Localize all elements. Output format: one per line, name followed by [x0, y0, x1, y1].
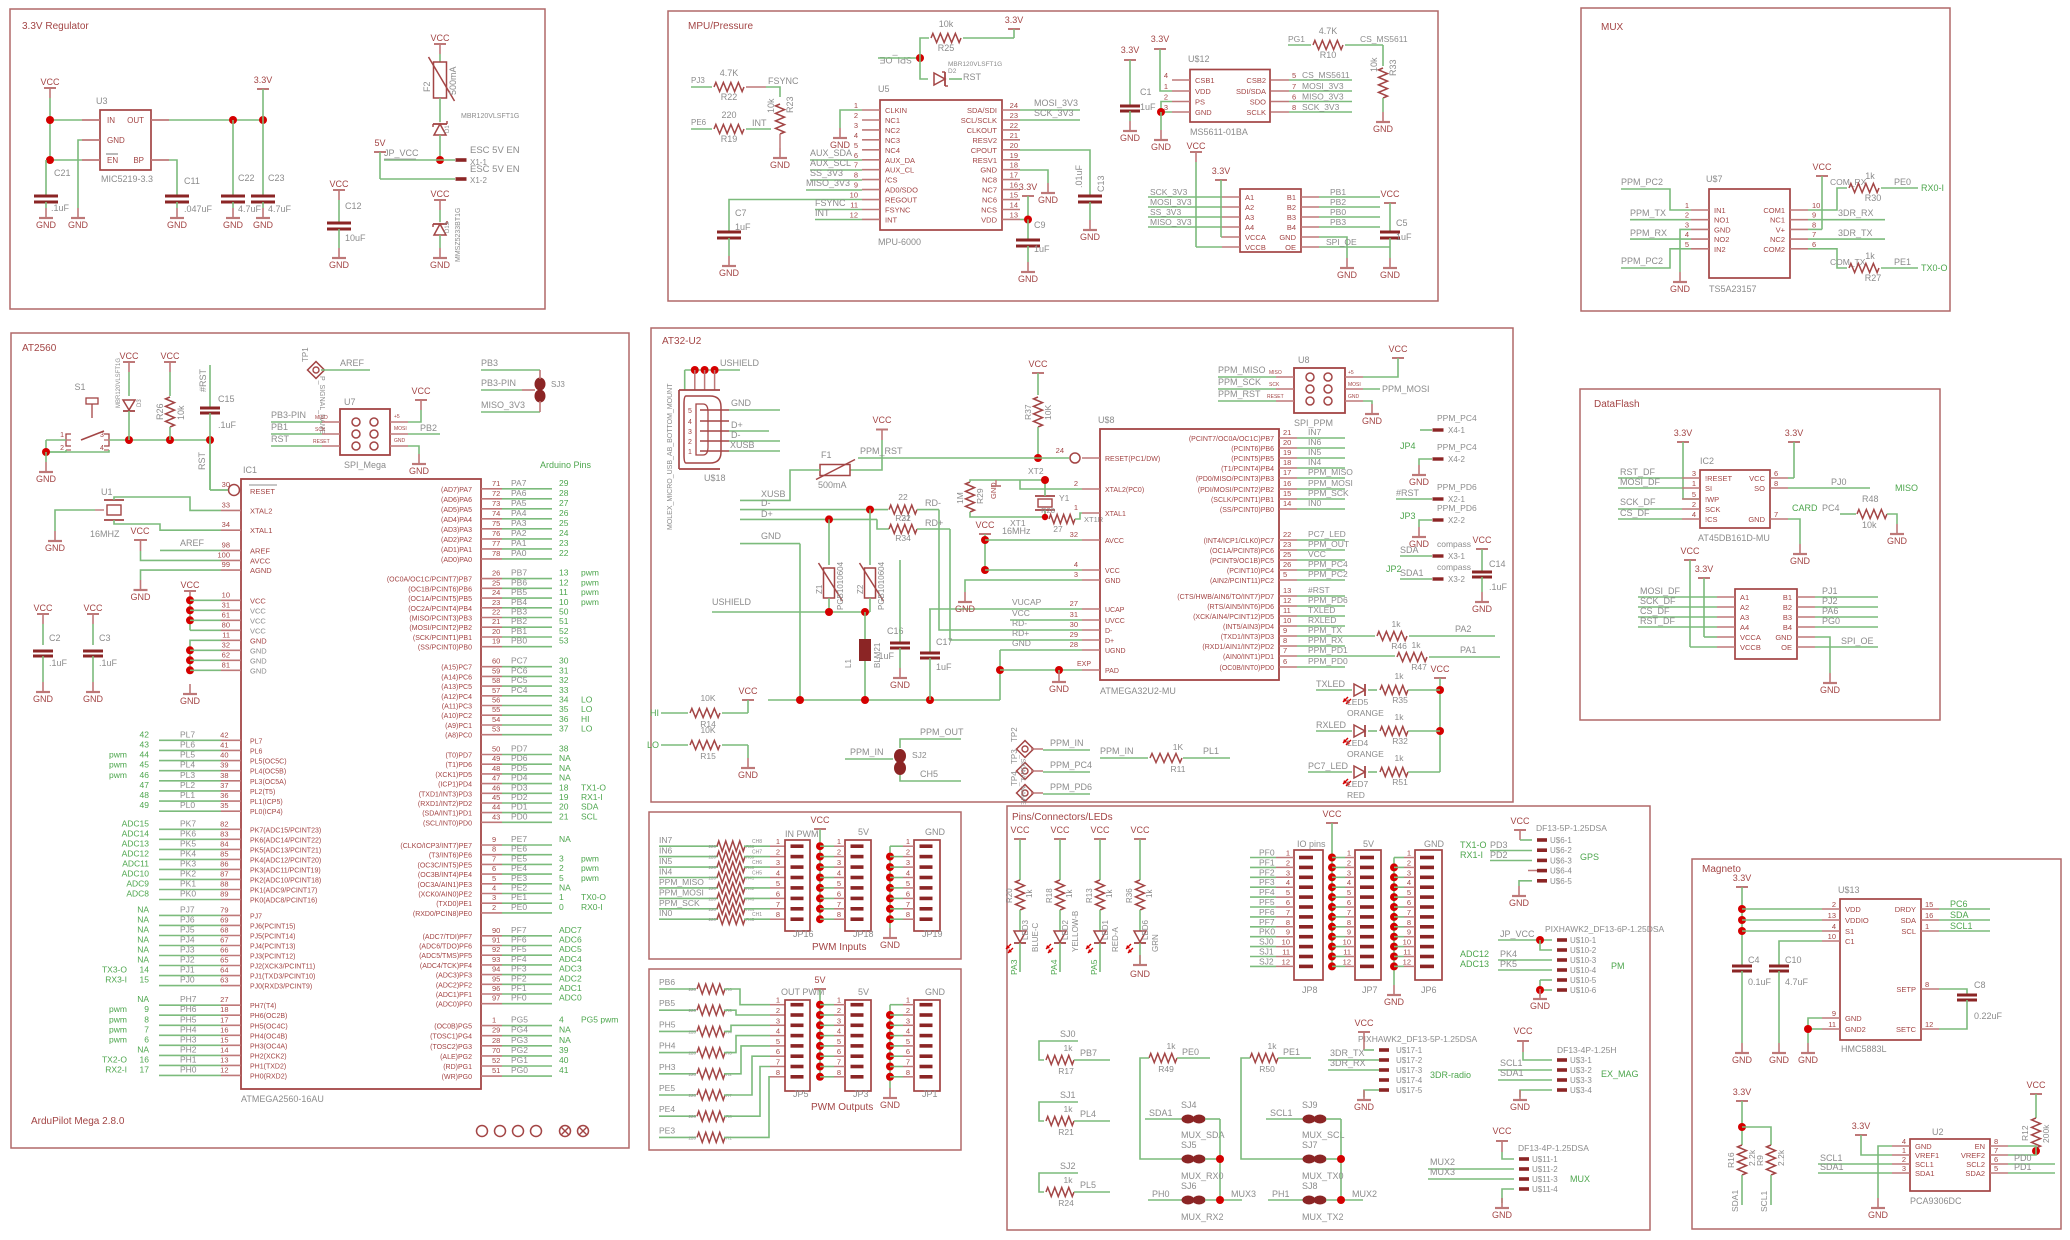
svg-text:ATMEGA2560-16AU: ATMEGA2560-16AU [241, 1094, 324, 1104]
connector U$6 GPS [1460, 816, 1607, 886]
svg-text:MMSZ5233BT1G: MMSZ5233BT1G [455, 208, 462, 262]
svg-text:R36: R36 [1125, 888, 1134, 903]
header JP7 5V [1332, 839, 1381, 995]
svg-text:PH6(OC2B): PH6(OC2B) [250, 1013, 287, 1020]
svg-text:67: 67 [220, 936, 228, 945]
svg-text:DRDY: DRDY [1895, 905, 1916, 914]
svg-text:PL7: PL7 [250, 738, 263, 745]
svg-text:PE1: PE1 [511, 892, 527, 902]
mount holes [477, 1126, 589, 1137]
svg-text:42: 42 [140, 729, 150, 739]
svg-text:GND: GND [1362, 416, 1383, 426]
svg-text:PPM_SCK: PPM_SCK [659, 898, 700, 908]
header JP19 [886, 827, 946, 939]
header U8 SPI_PPM [1267, 355, 1363, 428]
svg-text:MBR120VLSFT1G: MBR120VLSFT1G [116, 358, 122, 408]
svg-text:1: 1 [906, 837, 910, 846]
svg-text:4.7K: 4.7K [720, 68, 739, 78]
label PD0 [2008, 1153, 2055, 1164]
svg-text:PK0: PK0 [180, 889, 196, 899]
svg-text:(ADC0)PF0: (ADC0)PF0 [436, 1002, 472, 1009]
svg-text:6: 6 [837, 889, 841, 898]
svg-text:36: 36 [559, 714, 569, 724]
svg-text:3: 3 [906, 858, 910, 867]
svg-text:4: 4 [1164, 71, 1168, 80]
svg-text:3DR_TX: 3DR_TX [1330, 1048, 1365, 1058]
svg-text:2: 2 [1832, 900, 1836, 909]
svg-text:PD1: PD1 [2014, 1162, 2032, 1172]
svg-text:PPM_SCK: PPM_SCK [1218, 377, 1261, 387]
svg-text:(ADC1)PF1: (ADC1)PF1 [436, 992, 472, 999]
svg-text:4: 4 [1685, 230, 1689, 239]
svg-text:13: 13 [1828, 911, 1836, 920]
svg-text:GND: GND [1845, 1014, 1862, 1023]
svg-text:13: 13 [1283, 586, 1291, 595]
svg-text:S1: S1 [1845, 927, 1854, 936]
svg-text:ADC15: ADC15 [122, 818, 150, 828]
svg-text:4: 4 [776, 869, 780, 878]
header JP3 [820, 987, 871, 1099]
supply 3.3V VDD [1019, 182, 1038, 220]
svg-text:SETP: SETP [1896, 985, 1916, 994]
svg-text:PF7: PF7 [511, 925, 527, 935]
svg-text:PF4: PF4 [511, 954, 527, 964]
svg-text:GND: GND [761, 531, 782, 541]
svg-text:XUSB: XUSB [730, 440, 755, 450]
svg-text:8: 8 [1774, 479, 1778, 488]
svg-text:IC2: IC2 [1700, 456, 1714, 466]
IC U$13 pins [1822, 899, 1990, 1034]
svg-text:VCC: VCC [1090, 825, 1110, 835]
svg-text:2: 2 [492, 903, 496, 912]
IC U5 right pins [961, 101, 1020, 224]
svg-text:MISO_3V3: MISO_3V3 [1302, 92, 1344, 102]
svg-text:NA: NA [137, 914, 149, 924]
frame AT2560 box [11, 333, 629, 1148]
label SJ_SIGNAL_NAME [1019, 754, 1026, 806]
wire OE SPI_OE [1319, 237, 1390, 247]
svg-text:B1: B1 [1783, 593, 1792, 602]
svg-text:PL6: PL6 [250, 748, 263, 755]
svg-text:SDA1: SDA1 [1915, 1169, 1935, 1178]
wire OUT to 3.3V rail [169, 116, 267, 124]
svg-text:17: 17 [140, 1064, 150, 1074]
svg-text:2: 2 [688, 439, 692, 446]
svg-text:SJ2: SJ2 [1060, 1161, 1076, 1171]
svg-text:SJ1: SJ1 [1259, 947, 1274, 957]
svg-text:SDA2: SDA2 [1965, 1169, 1985, 1178]
svg-text:GND: GND [1337, 270, 1358, 280]
svg-text:PG3: PG3 [511, 1035, 528, 1045]
svg-text:SJ2: SJ2 [1259, 956, 1274, 966]
svg-text:U$10-4: U$10-4 [1570, 966, 1597, 975]
svg-text:5: 5 [906, 1037, 910, 1046]
svg-text:2.2k: 2.2k [1776, 1149, 1786, 1166]
svg-text:220: 220 [688, 1072, 696, 1077]
label PPM_MOSI hdr [1363, 384, 1430, 394]
svg-text:MS5611-01BA: MS5611-01BA [1190, 127, 1248, 137]
IC U$8 ATMEGA32U2 outline [1098, 415, 1279, 696]
svg-text:220: 220 [721, 110, 736, 120]
ground C1 [1120, 121, 1141, 143]
svg-text:(A14)PC6: (A14)PC6 [441, 674, 472, 681]
wire USB D- pin [729, 430, 780, 441]
svg-text:220: 220 [708, 917, 716, 922]
svg-text:PGB1010604: PGB1010604 [836, 561, 845, 610]
svg-text:PG5 pwm: PG5 pwm [581, 1015, 618, 1025]
svg-text:RST_DF: RST_DF [1640, 616, 1676, 626]
svg-text:GND: GND [1509, 898, 1530, 908]
label JP_VCC wire [384, 148, 455, 160]
svg-text:1: 1 [1074, 503, 1078, 512]
ground shifter DF [1820, 673, 1841, 695]
svg-text:TX1-O: TX1-O [1460, 840, 1487, 850]
svg-text:10k: 10k [1862, 520, 1877, 530]
svg-text:PJ2(XCK3/PCINT11): PJ2(XCK3/PCINT11) [250, 964, 315, 971]
svg-text:RXLED: RXLED [1316, 720, 1347, 730]
svg-text:5: 5 [854, 141, 858, 150]
wire IC2 gnd [1788, 519, 1800, 544]
svg-text:7: 7 [1812, 230, 1816, 239]
svg-text:PK0: PK0 [1259, 927, 1275, 937]
svg-text:(OC0B)PG5: (OC0B)PG5 [434, 1024, 472, 1031]
svg-text:1k: 1k [1865, 171, 1875, 181]
svg-text:PH7(T4): PH7(T4) [250, 1003, 276, 1010]
svg-text:PE0: PE0 [1894, 177, 1911, 187]
svg-text:2: 2 [906, 848, 910, 857]
svg-text:7: 7 [144, 1024, 149, 1034]
ground U$10 [1530, 989, 1551, 1011]
svg-text:VCC: VCC [810, 815, 830, 825]
svg-text:(OC3C/INT5)PE5: (OC3C/INT5)PE5 [418, 862, 473, 869]
svg-text:220: 220 [708, 886, 716, 891]
svg-text:ADC12: ADC12 [1460, 949, 1489, 959]
ground R23 [770, 148, 791, 170]
wire AREF pin98 [160, 538, 221, 550]
pin X2-1 [1396, 482, 1477, 504]
svg-text:VCC: VCC [83, 603, 103, 613]
wire EXP pad [1000, 661, 1091, 674]
svg-text:64: 64 [220, 966, 228, 975]
ground C22 [223, 208, 244, 230]
capacitor C3 group [83, 603, 118, 682]
jumper SJ2 [845, 727, 964, 781]
svg-text:SJ8: SJ8 [1302, 1181, 1318, 1191]
svg-text:U$18: U$18 [704, 473, 726, 483]
svg-text:U$10-6: U$10-6 [1570, 986, 1597, 995]
svg-text:PK4(ADC12/PCINT20): PK4(ADC12/PCINT20) [250, 857, 321, 864]
resistor R31 22 [889, 492, 1082, 630]
svg-text:.047uF: .047uF [184, 204, 213, 214]
capacitor C12 [327, 201, 366, 248]
svg-text:AT2560: AT2560 [22, 343, 57, 354]
svg-text:(TXD1/INT3)PD3: (TXD1/INT3)PD3 [419, 791, 472, 798]
svg-text:5: 5 [1994, 1164, 1998, 1173]
svg-text:PK0(ADC8/PCINT16): PK0(ADC8/PCINT16) [250, 898, 317, 905]
svg-text:ORANGE: ORANGE [1347, 749, 1384, 759]
svg-text:15: 15 [1283, 489, 1291, 498]
resistor R48 10k [1792, 494, 1897, 530]
svg-text:50: 50 [559, 607, 569, 617]
svg-text:GND: GND [1130, 969, 1151, 979]
svg-text:SJ3: SJ3 [551, 380, 565, 389]
svg-text:5: 5 [1685, 240, 1689, 249]
svg-text:SDA1: SDA1 [1500, 1068, 1524, 1078]
svg-text:VCC: VCC [1105, 568, 1120, 575]
supply VCC regulator input [40, 77, 60, 160]
svg-text:10k: 10k [176, 405, 186, 420]
svg-text:RESET: RESET [250, 487, 275, 496]
connector U$18 USB shield [685, 358, 760, 390]
svg-text:1uF: 1uF [936, 662, 952, 672]
svg-text:PE0: PE0 [511, 902, 527, 912]
svg-text:PA5: PA5 [511, 498, 527, 508]
svg-text:R26: R26 [155, 403, 165, 420]
svg-text:(OC1A/PCINT8)PC6: (OC1A/PCINT8)PC6 [1210, 548, 1274, 555]
svg-text:U$17-4: U$17-4 [1396, 1076, 1423, 1085]
svg-text:PA1: PA1 [1460, 645, 1476, 655]
connector U$18 USB body [667, 383, 729, 530]
svg-text:2: 2 [837, 1006, 841, 1015]
svg-text:TX0-O: TX0-O [581, 892, 606, 902]
svg-text:ADC4: ADC4 [559, 954, 582, 964]
svg-text:PE6: PE6 [691, 118, 707, 127]
svg-text:6: 6 [854, 151, 858, 160]
svg-text:D+: D+ [1105, 638, 1114, 645]
svg-text:MUX3: MUX3 [1231, 1189, 1256, 1199]
svg-text:IN0: IN0 [659, 908, 673, 918]
svg-text:ADC2: ADC2 [559, 973, 582, 983]
svg-text:(RXD0/PCIN8)PE0: (RXD0/PCIN8)PE0 [413, 911, 472, 918]
svg-text:BLUE-C: BLUE-C [1031, 922, 1040, 952]
svg-text:100: 100 [217, 550, 230, 559]
svg-text:PJ3: PJ3 [691, 76, 705, 85]
svg-text:U$8: U$8 [1098, 415, 1115, 425]
svg-text:9: 9 [854, 181, 858, 190]
svg-text:PB2: PB2 [420, 423, 437, 433]
pin X2-2 [1419, 503, 1477, 527]
svg-text:XT2: XT2 [1028, 466, 1044, 476]
label PPM_PC2 top [1621, 177, 1691, 210]
jumper net SJ1 R21 [1039, 1090, 1110, 1137]
svg-text:GND: GND [45, 543, 66, 553]
svg-text:ADC11: ADC11 [122, 858, 149, 868]
supply 3.3V IC2 right [1785, 428, 1804, 478]
svg-text:7: 7 [906, 900, 910, 909]
ground U3 gnd pin [68, 208, 89, 230]
supply VCC R12 [2026, 1080, 2046, 1118]
svg-text:72: 72 [492, 489, 500, 498]
svg-text:R16: R16 [1726, 1152, 1736, 1168]
capacitor C22 [221, 120, 262, 214]
svg-text:8: 8 [144, 1014, 149, 1024]
svg-text:6: 6 [1292, 93, 1296, 102]
svg-text:NA: NA [559, 883, 571, 893]
label 3DR_TX [1808, 228, 1885, 239]
svg-text:6: 6 [776, 1047, 780, 1056]
svg-text:GND: GND [770, 160, 791, 170]
label PD1 [2008, 1162, 2055, 1173]
svg-text:PK2: PK2 [180, 868, 196, 878]
switch S1 [60, 382, 109, 452]
svg-text:4: 4 [688, 419, 692, 426]
svg-text:PPM_PD6: PPM_PD6 [1308, 595, 1348, 605]
svg-text:4: 4 [1074, 560, 1078, 569]
svg-text:12: 12 [559, 577, 569, 587]
svg-text:500mA: 500mA [448, 66, 458, 95]
svg-text:PPM_IN: PPM_IN [850, 747, 884, 757]
svg-text:SJ0: SJ0 [1060, 1029, 1076, 1039]
label RST net [949, 72, 982, 82]
svg-text:65: 65 [220, 956, 228, 965]
svg-text:PH0: PH0 [180, 1064, 197, 1074]
wire V+ pin [1808, 228, 1822, 230]
svg-text:IN7: IN7 [659, 835, 673, 845]
svg-text:CS_DF: CS_DF [1620, 508, 1650, 518]
svg-text:32: 32 [1070, 530, 1078, 539]
svg-text:ESC 5V EN: ESC 5V EN [470, 145, 520, 156]
frame AT32-U2 box [651, 328, 1513, 802]
svg-text:NA: NA [137, 1044, 149, 1054]
supply 3.3V IC2 left [1674, 428, 1700, 499]
svg-text:VCC: VCC [329, 179, 349, 189]
svg-text:8: 8 [854, 171, 858, 180]
IC level shifter DF [1735, 589, 1797, 659]
svg-text:VDD: VDD [1195, 87, 1211, 96]
svg-text:(AD3)PA3: (AD3)PA3 [441, 527, 472, 534]
svg-text:5: 5 [559, 873, 564, 883]
svg-text:RST: RST [963, 72, 982, 82]
svg-text:6: 6 [1347, 898, 1351, 907]
svg-text:7: 7 [854, 161, 858, 170]
IC U$7 TS5A23157 [1706, 174, 1790, 294]
svg-text:R48: R48 [1862, 494, 1879, 504]
svg-text:C3: C3 [99, 633, 111, 643]
svg-text:4: 4 [1347, 878, 1351, 887]
svg-text:GND: GND [719, 268, 740, 278]
svg-text:4: 4 [559, 1015, 564, 1025]
svg-text:(MISO/PCINT3)PB3: (MISO/PCINT3)PB3 [409, 616, 472, 623]
svg-text:PB5: PB5 [511, 587, 527, 597]
svg-text:(A13)PC5: (A13)PC5 [441, 684, 472, 691]
svg-text:PH0(RXD2): PH0(RXD2) [250, 1073, 287, 1080]
svg-text:FSYNC: FSYNC [885, 206, 911, 215]
svg-text:Y1: Y1 [1059, 493, 1070, 503]
svg-text:DF13-5P-1.25DSA: DF13-5P-1.25DSA [1536, 823, 1607, 833]
svg-text:3.3V: 3.3V [254, 75, 273, 85]
svg-text:23: 23 [559, 538, 569, 548]
ground R48 [1887, 524, 1908, 546]
svg-text:PF0: PF0 [511, 993, 527, 1003]
svg-text:(RXD1/INT2)PD2: (RXD1/INT2)PD2 [418, 801, 472, 808]
svg-text:PG0: PG0 [1822, 616, 1840, 626]
svg-text:pwm: pwm [581, 597, 599, 607]
svg-text:NA: NA [559, 763, 571, 773]
svg-text:RXLED: RXLED [1308, 615, 1336, 625]
svg-text:C17: C17 [936, 637, 953, 647]
svg-text:90: 90 [492, 926, 500, 935]
svg-text:59: 59 [492, 666, 500, 675]
svg-text:NO1: NO1 [1714, 216, 1729, 225]
svg-text:9: 9 [1812, 211, 1816, 220]
svg-text:24: 24 [559, 528, 569, 538]
label SCK_DF [1618, 497, 1682, 509]
svg-text:(AIN0/INT1)PD1: (AIN0/INT1)PD1 [1223, 654, 1274, 661]
varistor Z2 PGB1010604 [856, 561, 886, 612]
svg-text:R32: R32 [1392, 736, 1408, 746]
label INT pin12 [815, 208, 862, 220]
svg-text:47: 47 [492, 774, 500, 783]
svg-text:VREF1: VREF1 [1915, 1151, 1939, 1160]
svg-text:5V: 5V [814, 975, 825, 985]
svg-text:PE3: PE3 [659, 1125, 675, 1135]
svg-text:SCL1: SCL1 [1950, 921, 1973, 931]
svg-text:X1-2: X1-2 [470, 176, 487, 185]
svg-text:VCC: VCC [1430, 664, 1450, 674]
svg-text:JP_VCC: JP_VCC [1500, 929, 1535, 939]
svg-text:SCK_3V3: SCK_3V3 [1034, 108, 1074, 118]
label JP3 [1400, 511, 1416, 521]
svg-text:JP19: JP19 [922, 929, 943, 939]
svg-text:38: 38 [559, 744, 569, 754]
svg-text:AUX_CL: AUX_CL [885, 166, 914, 175]
svg-text:GND: GND [394, 438, 406, 444]
svg-text:53: 53 [559, 636, 569, 646]
svg-text:4: 4 [837, 1027, 841, 1036]
svg-text:1k: 1k [1145, 889, 1154, 898]
svg-text:PA4: PA4 [1049, 959, 1059, 975]
svg-text:PK3: PK3 [180, 858, 196, 868]
svg-text:19: 19 [1283, 448, 1291, 457]
svg-text:21: 21 [1283, 428, 1291, 437]
LED columns [1005, 825, 1160, 979]
svg-text:C11: C11 [184, 176, 200, 186]
supply VCC SPI_PPM [1363, 344, 1408, 377]
jumper SJ5 [1181, 1119, 1224, 1200]
supply VCC shifter [1186, 141, 1206, 247]
svg-text:91: 91 [492, 936, 500, 945]
svg-text:RX3-I: RX3-I [105, 975, 127, 985]
svg-text:PH4(OC4B): PH4(OC4B) [250, 1033, 287, 1040]
svg-text:27: 27 [559, 498, 569, 508]
IC1 PF port pins [419, 925, 582, 1009]
svg-text:F1: F1 [821, 450, 832, 460]
svg-text:49: 49 [140, 800, 150, 810]
svg-text:D3: D3 [137, 399, 143, 407]
svg-text:B2: B2 [1287, 203, 1296, 212]
svg-text:1: 1 [906, 996, 910, 1005]
svg-text:CH7: CH7 [752, 850, 762, 856]
svg-text:13: 13 [559, 568, 569, 578]
svg-text:11: 11 [1343, 948, 1351, 957]
label SCL1 U2 [1818, 1153, 1892, 1164]
svg-text:8: 8 [837, 1068, 841, 1077]
svg-text:DF13-4P-1.25H: DF13-4P-1.25H [1557, 1045, 1617, 1055]
svg-text:5: 5 [776, 1037, 780, 1046]
svg-text:ADC8: ADC8 [126, 889, 149, 899]
svg-text:PD3: PD3 [1490, 840, 1508, 850]
svg-text:.1uF: .1uF [1489, 582, 1508, 592]
svg-text:PPM_PC4: PPM_PC4 [1308, 559, 1348, 569]
svg-text:R37: R37 [1023, 404, 1033, 420]
svg-text:6: 6 [837, 1047, 841, 1056]
svg-text:PH2(XCK2): PH2(XCK2) [250, 1053, 287, 1060]
svg-text:6: 6 [1774, 469, 1778, 478]
svg-text:R11: R11 [1171, 764, 1186, 774]
svg-text:USHIELD: USHIELD [720, 358, 760, 368]
svg-text:NA: NA [559, 834, 571, 844]
capacitor C11 [165, 176, 213, 214]
